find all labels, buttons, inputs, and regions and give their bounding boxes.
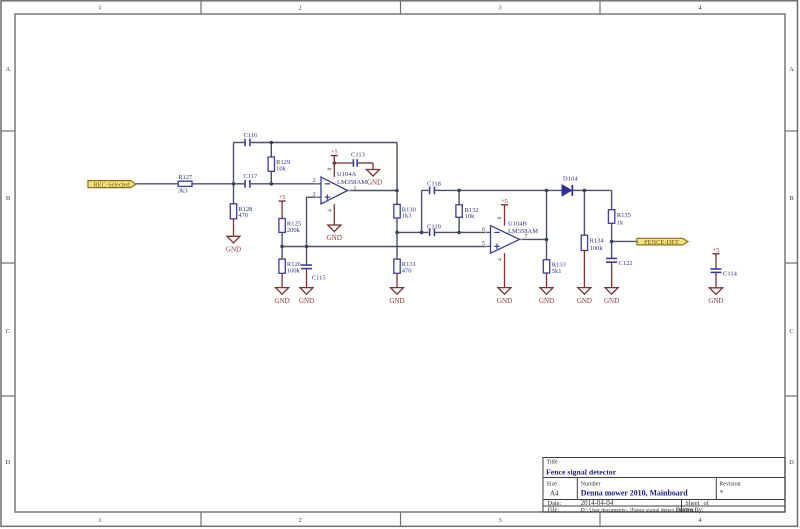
power stub R126 to ground (281, 273, 283, 287)
svg-text:GND: GND (389, 297, 404, 305)
diode D104 (562, 176, 578, 196)
svg-text:470: 470 (402, 267, 412, 274)
title block title text (546, 468, 617, 477)
svg-text:LM358AM: LM358AM (508, 228, 538, 235)
svg-text:1k: 1k (617, 220, 624, 227)
resistor R128 (230, 204, 252, 219)
wire bias junction to R126 (281, 247, 283, 260)
svg-text:Number: Number (581, 482, 601, 488)
wire node C to top-right corner (271, 142, 397, 144)
junction node K (457, 231, 461, 235)
power port +5 at C114 (713, 247, 720, 254)
svg-text:1: 1 (98, 517, 101, 524)
svg-text:1k3: 1k3 (402, 213, 412, 220)
op-amp U104A pin 3 stub (313, 192, 321, 198)
svg-text:GND: GND (299, 297, 314, 305)
svg-text:D104: D104 (563, 176, 578, 183)
wire node A up to feedback rail (233, 143, 235, 184)
svg-text:C: C (789, 328, 793, 335)
junction bias node at R125 (280, 245, 284, 249)
op-amp U104A pin 8 number (327, 167, 333, 170)
power port +5 at U104A (331, 149, 338, 156)
title block File row (548, 506, 704, 513)
svg-text:GND: GND (275, 297, 290, 305)
svg-text:REC-Selected: REC-Selected (93, 181, 130, 188)
svg-text:8: 8 (327, 167, 333, 170)
svg-text:File:: File: (548, 506, 560, 513)
op-amp U104A pin 2 stub (313, 178, 321, 185)
title block Number label (581, 482, 688, 498)
svg-text:6: 6 (482, 227, 485, 233)
power stub C114 to ground (715, 272, 717, 287)
svg-text:C113: C113 (351, 152, 365, 159)
svg-text:GND: GND (577, 297, 592, 305)
svg-text:D: D (6, 459, 11, 466)
resistor R127 (178, 174, 193, 195)
wire node L down to R133 (546, 239, 548, 259)
svg-text:+5: +5 (713, 247, 720, 254)
svg-text:+5: +5 (279, 194, 286, 201)
wire node B to U104A pin 2 (271, 183, 316, 185)
resistor R132 (456, 205, 479, 220)
svg-text:C115: C115 (312, 275, 326, 282)
power stub C122 to ground (611, 263, 613, 288)
op-amp U104A pin 1 stub (348, 185, 357, 191)
wire C115 junction down to plate (306, 247, 308, 265)
op-amp U104A pin 4 number (327, 209, 333, 212)
resistor R135 (608, 210, 630, 227)
wire C116 to node C (251, 142, 272, 144)
svg-text:10k: 10k (276, 165, 287, 172)
resistor R134 (581, 235, 604, 252)
svg-text:3: 3 (498, 517, 501, 524)
power stub R128 to ground (233, 219, 235, 237)
svg-text:5: 5 (482, 241, 485, 247)
wire R125 to bias junction (281, 232, 283, 246)
capacitor C117 (244, 173, 259, 187)
wire R129 to node B (270, 171, 272, 184)
wire D104 cathode to node M to corner (573, 189, 612, 191)
svg-text:A: A (789, 66, 794, 73)
svg-text:100k: 100k (287, 267, 301, 274)
svg-text:*: * (720, 489, 724, 497)
op-amp U104B (491, 220, 539, 253)
wire node G to node H (397, 231, 429, 233)
power port +5 above R125 (279, 194, 286, 201)
ground GND at C113 (367, 170, 383, 187)
wire bias rail R125 junction to U104B pin 5 (282, 246, 486, 248)
svg-text:3: 3 (498, 5, 501, 12)
op-amp U104A (321, 171, 367, 204)
junction node I (457, 189, 461, 193)
resistor R126 (279, 259, 302, 274)
wire R135 to node N (611, 223, 613, 241)
wire node A down to R128 (233, 184, 235, 204)
wire U104B pin 7 to node L (525, 238, 547, 240)
svg-text:3: 3 (313, 192, 316, 198)
junction node N (610, 240, 614, 244)
svg-text:FENCE-DET: FENCE-DET (644, 239, 679, 246)
power stub U104A pin 8 to +5 (333, 156, 335, 177)
ground GND at C114 (708, 288, 723, 305)
ground GND at R128 (226, 236, 241, 253)
title block Title label (547, 460, 558, 466)
svg-text:4: 4 (698, 517, 702, 524)
capacitor C114 (711, 269, 738, 277)
svg-text:GND: GND (367, 179, 382, 187)
svg-text:8: 8 (498, 216, 504, 219)
power stub C115 to ground (306, 269, 308, 288)
op-amp U104B pin 7 stub (520, 234, 528, 240)
capacitor C116 (244, 132, 259, 146)
capacitor C113 (351, 152, 365, 167)
ground GND at R134 (577, 288, 592, 305)
junction node H (420, 231, 424, 235)
title block Date row (548, 499, 710, 507)
op-amp U104B pin 6 stub (482, 227, 490, 234)
svg-text:B: B (6, 195, 11, 202)
title block Revision label (719, 482, 740, 497)
power stub U104A pin 4 to ground (333, 204, 335, 225)
resistor R129 (268, 157, 290, 172)
wire node G down to R131 (396, 232, 398, 259)
junction node L (545, 238, 549, 242)
title block Size label (547, 482, 560, 498)
svg-text:C122: C122 (619, 260, 633, 267)
power port +5 at U104B (501, 198, 508, 205)
port FENCE-DET (637, 238, 688, 246)
svg-text:Title: Title (547, 460, 558, 466)
wire C119 to U104B pin 6 (434, 231, 486, 233)
svg-text:Drawn By:: Drawn By: (676, 506, 704, 513)
title block frame (543, 458, 785, 513)
svg-text:470: 470 (238, 212, 248, 219)
power stub R133 to ground (546, 273, 548, 288)
svg-text:3k3: 3k3 (178, 188, 188, 195)
svg-text:C: C (6, 328, 10, 335)
power stub R131 to ground (396, 273, 398, 287)
op-amp U104B pin 8 number (498, 216, 504, 219)
wire C117 to node B (251, 183, 272, 185)
ground GND at R126 (275, 288, 290, 305)
svg-text:2: 2 (313, 178, 316, 184)
junction node G (395, 231, 399, 235)
wire node M down to R134 (583, 190, 585, 235)
ground GND at R131 (389, 288, 404, 305)
op-amp U104B pin 4 number (498, 258, 504, 261)
wire R130 to node G (396, 218, 398, 232)
capacitor C118 (427, 181, 441, 195)
svg-text:GND: GND (327, 234, 342, 242)
wire node J down to U104B output node L (546, 190, 548, 239)
power stub U104B pin 8 to +5 (504, 205, 506, 226)
junction node A (232, 182, 236, 186)
svg-text:GND: GND (604, 297, 619, 305)
junction node M (583, 189, 587, 193)
junction node J (545, 189, 549, 193)
capacitor C115 (301, 265, 326, 281)
svg-text:LM358AM: LM358AM (337, 179, 367, 186)
svg-text:4: 4 (498, 258, 504, 261)
svg-text:Revision: Revision (719, 482, 740, 488)
resistor R133 (543, 260, 566, 275)
junction node C (270, 141, 274, 145)
junction node D (395, 189, 399, 193)
svg-text:GND: GND (539, 297, 554, 305)
wire node A to C117 (234, 183, 245, 185)
svg-text:100k: 100k (590, 245, 604, 252)
svg-text:A: A (6, 66, 11, 73)
wire node H up to C118 (422, 190, 429, 232)
power stub +5 to C114 (715, 254, 717, 269)
svg-text:200k: 200k (287, 227, 301, 234)
svg-text:R134: R134 (590, 238, 605, 245)
port REC-Selected (88, 181, 136, 189)
wire node N down to C122 (611, 241, 613, 258)
svg-text:2: 2 (298, 5, 301, 12)
wire C118 to node I (434, 189, 459, 191)
svg-text:C114: C114 (723, 270, 738, 277)
svg-text:U104B: U104B (508, 220, 527, 227)
svg-text:2014-04-04: 2014-04-04 (581, 499, 614, 507)
wire node I down to R132 (458, 190, 460, 204)
junction bias node at C115 (305, 245, 309, 249)
resistor R131 (394, 259, 416, 274)
wire R132 to node K (458, 217, 460, 232)
svg-text:4: 4 (698, 5, 702, 12)
wire feedback vertical to node D and R130 (396, 143, 398, 205)
wire corner down to R135 (611, 190, 613, 209)
svg-text:C119: C119 (427, 223, 441, 230)
wire U104A pin 3 to bias rail (307, 197, 317, 246)
resistor R125 (279, 219, 301, 234)
svg-text:R127: R127 (178, 174, 193, 181)
junction node B (270, 182, 274, 186)
ground GND at R133 (539, 288, 554, 305)
svg-text:4: 4 (327, 209, 333, 212)
svg-text:5k1: 5k1 (552, 268, 562, 275)
junction node F at C113 (333, 161, 337, 165)
svg-text:of: of (704, 500, 710, 507)
resistor R130 (394, 204, 416, 219)
wire feedback rail left segment to C116 (234, 142, 245, 144)
svg-text:Fence signal detector: Fence signal detector (546, 468, 617, 477)
svg-text:1: 1 (354, 185, 357, 191)
svg-text:C116: C116 (244, 132, 259, 139)
ground GND at U104A pin 4 (327, 225, 342, 242)
svg-text:C118: C118 (427, 181, 441, 188)
svg-text:Denna mower 2010, Mainboard: Denna mower 2010, Mainboard (581, 489, 688, 498)
svg-text:B: B (789, 195, 794, 202)
svg-text:1: 1 (98, 5, 101, 12)
svg-text:GND: GND (497, 297, 512, 305)
svg-text:D: D (789, 459, 794, 466)
wire R127 to node A (192, 183, 234, 185)
op-amp U104B pin 5 stub (482, 241, 490, 248)
svg-text:R135: R135 (617, 212, 631, 219)
wire input port to R127 (136, 183, 178, 185)
svg-text:GND: GND (226, 246, 241, 254)
ground GND at C115 (299, 288, 314, 305)
ground GND at U104B pin 4 (497, 288, 512, 305)
svg-text:2: 2 (298, 517, 301, 524)
capacitor C122 (606, 258, 632, 267)
svg-text:+5: +5 (331, 149, 338, 156)
wire node C down to R129 (270, 143, 272, 158)
wire U104A output to node D (353, 190, 398, 192)
capacitor C119 (427, 223, 441, 236)
svg-text:Size: Size (547, 482, 558, 488)
svg-text:7: 7 (525, 234, 528, 240)
wire node N to FENCE-DET port (612, 240, 637, 242)
svg-text:GND: GND (708, 297, 723, 305)
ground GND at C122 (604, 288, 619, 305)
power stub +5 to R125 (281, 201, 283, 218)
svg-text:10k: 10k (465, 213, 476, 220)
power stub U104B pin 4 to ground (504, 253, 506, 287)
svg-text:A4: A4 (550, 489, 559, 497)
svg-text:+5: +5 (501, 198, 508, 205)
wire node I to node J to D104 anode (459, 189, 562, 191)
svg-text:U104A: U104A (337, 171, 356, 178)
power stub R134 to ground (583, 251, 585, 288)
wire C113 branch (334, 163, 373, 170)
svg-text:C117: C117 (244, 173, 259, 180)
